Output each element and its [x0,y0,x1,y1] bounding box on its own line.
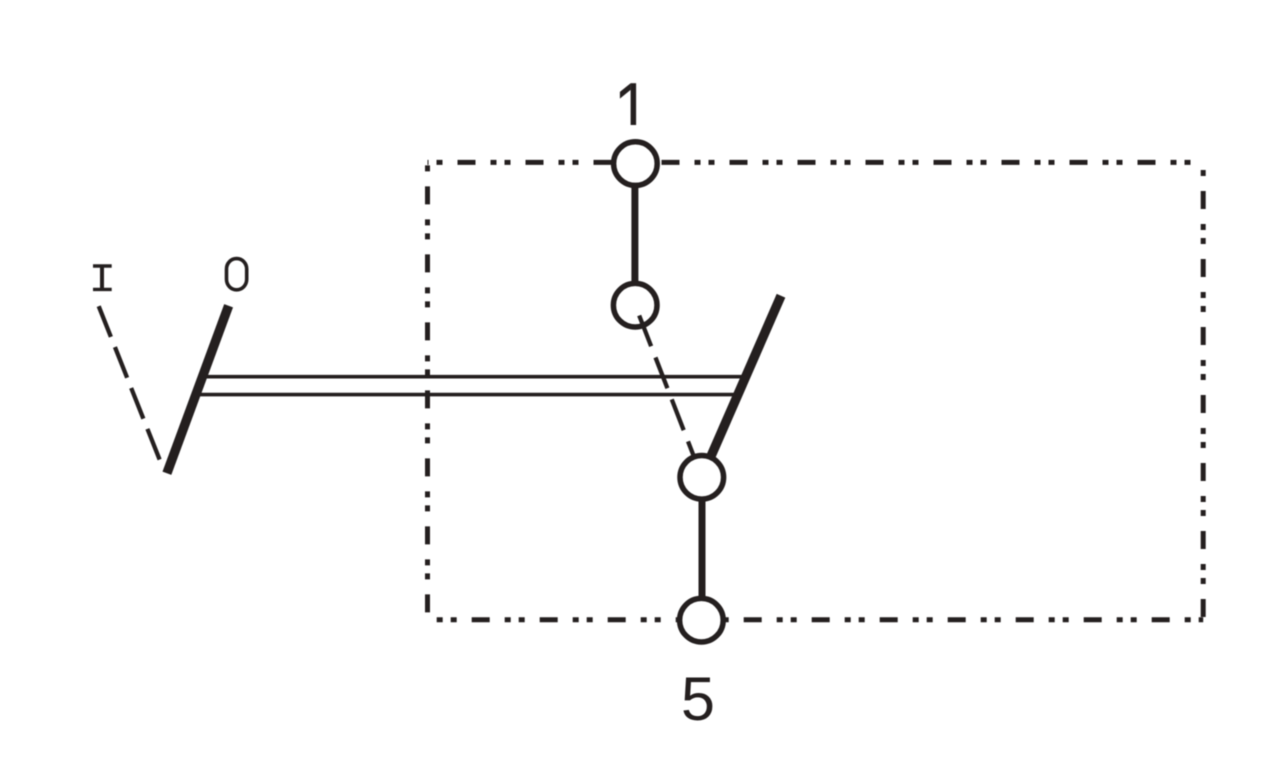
label 0 (obround outline) [227,259,247,290]
label I bottom bar [93,288,112,291]
actuator lever (position 0, left) [167,306,229,473]
dashed travel line (left, position I) [99,306,161,463]
wire terminal1 to contact [631,164,638,306]
terminal 5 circle [680,598,724,642]
dashed travel line (right) [639,316,693,456]
lever pivot circle [680,456,724,500]
svg-text:5: 5 [681,665,715,733]
switch lever (closed position, right) [702,296,781,478]
label I top bar [93,264,112,267]
enclosure boundary (dash-dot-dot box) top edge [428,160,1204,165]
enclosure boundary bottom edge [428,617,1204,622]
label 1 flag [620,83,631,98]
enclosure boundary left edge [425,162,430,619]
terminal 1 circle [614,142,658,186]
label 1 stem [631,83,637,125]
wire contact to terminal5 [699,477,706,620]
mechanical linkage upper bar [203,375,746,379]
enclosure boundary right edge [1201,162,1206,619]
mechanical linkage lower bar [196,393,737,397]
label I stem [100,265,104,292]
moving contact pivot circle [613,283,657,327]
